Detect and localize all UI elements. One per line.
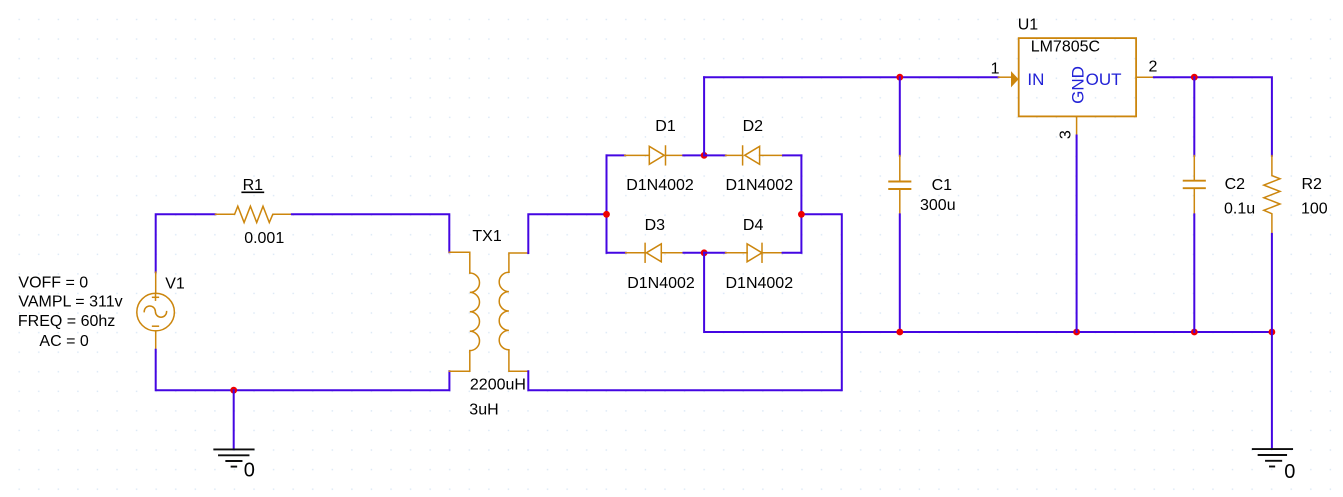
resistor R1	[216, 206, 292, 222]
svg-text:0: 0	[244, 459, 255, 481]
svg-text:R2: R2	[1302, 176, 1323, 193]
resistor R2	[1264, 156, 1280, 234]
capacitor C1	[889, 156, 910, 215]
svg-text:3uH: 3uH	[469, 401, 498, 418]
wire to left ground	[233, 390, 235, 449]
node bridge DC minus	[701, 249, 708, 256]
svg-text:3: 3	[1057, 130, 1074, 139]
wire bridge top left segment	[607, 154, 625, 156]
wire R2 bottom	[1271, 234, 1273, 332]
wire bridge plus to top rail	[703, 77, 705, 155]
node C1 top	[896, 74, 903, 81]
wire C2 branch top	[1193, 77, 1195, 155]
svg-text:0.001: 0.001	[244, 230, 284, 247]
wire V1 top to R1 corner	[156, 214, 216, 272]
svg-text:C1: C1	[932, 177, 953, 194]
wire bridge bottom right segment	[783, 252, 802, 254]
wire bridge top mid-right	[704, 154, 726, 156]
wire pin2 to R2 top	[1154, 77, 1272, 155]
svg-text:AC = 0: AC = 0	[39, 333, 88, 350]
node R2 bottom	[1269, 329, 1276, 336]
svg-text:VOFF = 0: VOFF = 0	[18, 274, 88, 291]
svg-text:IN: IN	[1027, 70, 1044, 89]
svg-text:VAMPL = 311v: VAMPL = 311v	[18, 293, 122, 310]
wire bridge bottom left segment	[607, 252, 626, 254]
svg-text:U1: U1	[1018, 17, 1039, 34]
transformer TX1	[449, 252, 528, 371]
capacitor C2	[1184, 156, 1205, 215]
wire bridge minus down to ground rail	[704, 253, 1272, 332]
wire bridge top mid-left	[683, 154, 704, 156]
svg-text:D1N4002: D1N4002	[726, 275, 794, 292]
node U1 gnd bottom	[1073, 329, 1080, 336]
svg-text:D1N4002: D1N4002	[626, 177, 694, 194]
svg-text:2: 2	[1149, 59, 1158, 76]
svg-text:LM7805C: LM7805C	[1031, 39, 1100, 56]
wire R1 to TX1 primary top	[292, 214, 449, 252]
svg-text:D3: D3	[645, 217, 666, 234]
voltage source V1	[137, 272, 175, 350]
wire right ground drop	[1271, 332, 1273, 449]
node bridge DC plus	[701, 152, 708, 159]
node C2 bottom	[1191, 329, 1198, 336]
node bridge left AC input	[603, 211, 610, 218]
svg-text:FREQ = 60hz: FREQ = 60hz	[18, 313, 115, 330]
diode D3	[626, 243, 684, 262]
ground 0 right	[1253, 449, 1292, 466]
svg-text:0: 0	[1284, 461, 1295, 483]
regulator U1 LM7805C	[998, 38, 1154, 135]
svg-text:D1N4002: D1N4002	[726, 177, 794, 194]
svg-text:2200uH: 2200uH	[470, 376, 526, 393]
svg-text:100: 100	[1301, 200, 1328, 217]
svg-text:1: 1	[991, 61, 1000, 78]
svg-text:D2: D2	[743, 118, 764, 135]
diode D2	[726, 146, 784, 165]
node ground branch	[230, 387, 237, 394]
wire secondary top to bridge left	[528, 214, 842, 390]
wire U1 gnd to rail	[1076, 136, 1078, 333]
svg-text:TX1: TX1	[472, 228, 501, 245]
wire bridge top right segment	[783, 154, 801, 156]
wire bridge bottom mid-left	[684, 252, 705, 254]
svg-text:D4: D4	[743, 217, 764, 234]
wire C1 branch bottom	[899, 214, 901, 332]
diode D1	[625, 146, 684, 165]
wire bridge right vertical	[800, 155, 802, 252]
node C2 top	[1191, 74, 1198, 81]
node bridge right AC input	[798, 211, 805, 218]
svg-text:V1: V1	[165, 275, 185, 292]
wire secondary top vertical	[528, 214, 606, 253]
svg-text:R1: R1	[243, 177, 264, 194]
wire V1 bottom to primary bottom	[156, 350, 450, 391]
wire bridge bottom mid-right	[704, 252, 726, 254]
wire bridge left vertical	[606, 155, 608, 252]
svg-text:C2: C2	[1225, 176, 1246, 193]
wire C2 branch bottom	[1193, 214, 1195, 332]
svg-text:D1: D1	[655, 118, 676, 135]
svg-text:GND: GND	[1069, 66, 1088, 104]
wire C1 branch top	[899, 77, 901, 155]
svg-text:D1N4002: D1N4002	[627, 275, 695, 292]
svg-text:OUT: OUT	[1086, 70, 1122, 89]
svg-text:300u: 300u	[920, 197, 956, 214]
node C1 bottom	[896, 329, 903, 336]
ground 0 left	[214, 449, 253, 466]
pin 1 arrow	[1011, 71, 1019, 87]
label R1	[242, 177, 263, 194]
wire top rail	[704, 76, 998, 78]
diode D4	[726, 243, 783, 262]
svg-text:0.1u: 0.1u	[1224, 200, 1255, 217]
